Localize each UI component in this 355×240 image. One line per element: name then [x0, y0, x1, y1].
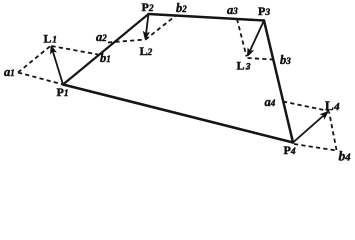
svg-text:a1: a1 [4, 65, 15, 79]
svg-text:L4: L4 [325, 98, 340, 113]
svg-text:a4: a4 [265, 95, 276, 109]
svg-text:b2: b2 [176, 1, 187, 15]
svg-text:b3: b3 [280, 53, 291, 67]
svg-text:a2: a2 [96, 30, 107, 44]
svg-text:a3: a3 [227, 3, 238, 17]
svg-text:b1: b1 [100, 51, 111, 65]
